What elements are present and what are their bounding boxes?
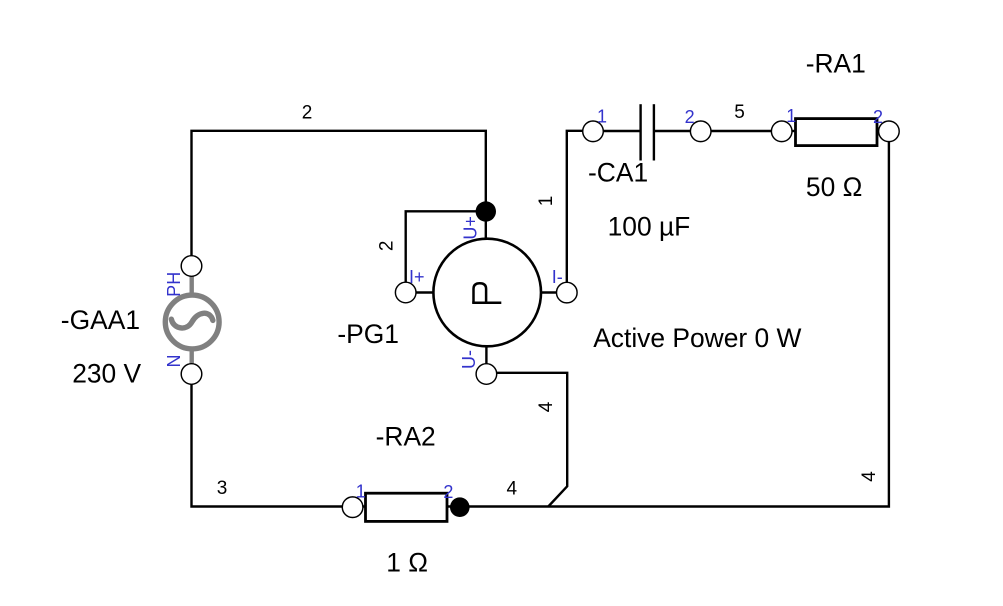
svg-text:230 V: 230 V bbox=[72, 359, 141, 389]
wire right plate to CA1 pin2 bbox=[655, 130, 691, 132]
svg-text:5: 5 bbox=[734, 102, 745, 123]
terminal PH of GAA1 bbox=[181, 256, 202, 277]
wire PG1 body to I- terminal bbox=[541, 291, 558, 293]
terminal 1 of RA1 bbox=[771, 121, 792, 142]
wire RA1 pin1 to body bbox=[792, 130, 796, 132]
wire junction left and down to I+ bbox=[406, 211, 486, 282]
terminal 2 of CA1 bbox=[690, 121, 711, 142]
svg-text:-RA1: -RA1 bbox=[806, 48, 866, 78]
wire RA1 body to pin2 bbox=[876, 130, 879, 132]
capacitor -CA1 left plate bbox=[639, 104, 641, 160]
P glyph rotated inside PG1 bbox=[472, 283, 501, 303]
capacitor -CA1 right plate bbox=[653, 104, 655, 160]
terminal 2 of RA1 bbox=[879, 121, 900, 142]
source -GAA1 body circle bbox=[165, 276, 219, 365]
wire net 2: source PH up, across top, down to junction bbox=[192, 131, 486, 256]
svg-text:50 Ω: 50 Ω bbox=[806, 172, 862, 202]
svg-text:4: 4 bbox=[859, 471, 880, 482]
wire net 5: CA1 pin2 to RA1 pin1 bbox=[711, 130, 772, 132]
junction dot at RA2 pin2 bbox=[450, 497, 470, 517]
svg-text:2: 2 bbox=[685, 107, 695, 127]
svg-text:2: 2 bbox=[302, 103, 313, 124]
svg-text:4: 4 bbox=[536, 401, 557, 412]
terminal I+ of PG1 bbox=[395, 282, 416, 303]
svg-text:100 µF: 100 µF bbox=[608, 212, 691, 242]
svg-text:I-: I- bbox=[552, 267, 563, 287]
wire CA1 pin1 to left plate bbox=[603, 130, 639, 132]
svg-text:3: 3 bbox=[217, 478, 228, 499]
wire net 1: I- up and right to CA1 pin1 bbox=[567, 131, 583, 283]
terminal 1 of CA1 bbox=[583, 121, 604, 142]
svg-text:1: 1 bbox=[597, 107, 607, 127]
svg-text:U+: U+ bbox=[461, 216, 481, 240]
svg-text:-PG1: -PG1 bbox=[337, 319, 399, 349]
svg-text:-GAA1: -GAA1 bbox=[61, 305, 140, 335]
svg-text:4: 4 bbox=[507, 479, 518, 500]
terminal U- of PG1 bbox=[476, 364, 497, 385]
svg-text:2: 2 bbox=[377, 241, 398, 252]
wire I+ terminal to PG1 body bbox=[416, 291, 435, 293]
wire net 4: PG1 U- right, down, diagonal into bottom run bbox=[497, 373, 568, 507]
svg-text:N: N bbox=[164, 355, 184, 368]
svg-text:1: 1 bbox=[786, 106, 796, 126]
svg-text:1: 1 bbox=[356, 482, 366, 502]
power meter -PG1 body circle bbox=[433, 239, 541, 347]
svg-text:Active Power 0 W: Active Power 0 W bbox=[593, 323, 801, 353]
terminal N of GAA1 bbox=[181, 364, 202, 385]
sine wave inside source bbox=[171, 313, 213, 328]
svg-text:2: 2 bbox=[443, 482, 453, 502]
svg-text:-CA1: -CA1 bbox=[588, 158, 648, 188]
wire junction to PG1 U+ terminal bbox=[485, 212, 487, 240]
wire PG1 body to U- terminal bbox=[485, 346, 487, 365]
junction dot at PG1 U+ bbox=[476, 201, 496, 221]
terminal 1 of RA2 bbox=[342, 497, 363, 518]
wire net 4: left vertical, bottom run, right vertical up to RA1 pin2 bbox=[192, 142, 889, 507]
svg-text:PH: PH bbox=[164, 272, 184, 297]
svg-text:1 Ω: 1 Ω bbox=[386, 548, 428, 578]
svg-text:1: 1 bbox=[536, 196, 557, 207]
svg-text:2: 2 bbox=[873, 107, 883, 127]
resistor -RA2 body bbox=[366, 493, 448, 521]
svg-text:-RA2: -RA2 bbox=[376, 422, 436, 452]
svg-text:U-: U- bbox=[459, 350, 479, 369]
svg-text:I+: I+ bbox=[409, 267, 425, 287]
resistor -RA1 body bbox=[796, 119, 878, 146]
terminal I- of PG1 bbox=[557, 282, 578, 303]
